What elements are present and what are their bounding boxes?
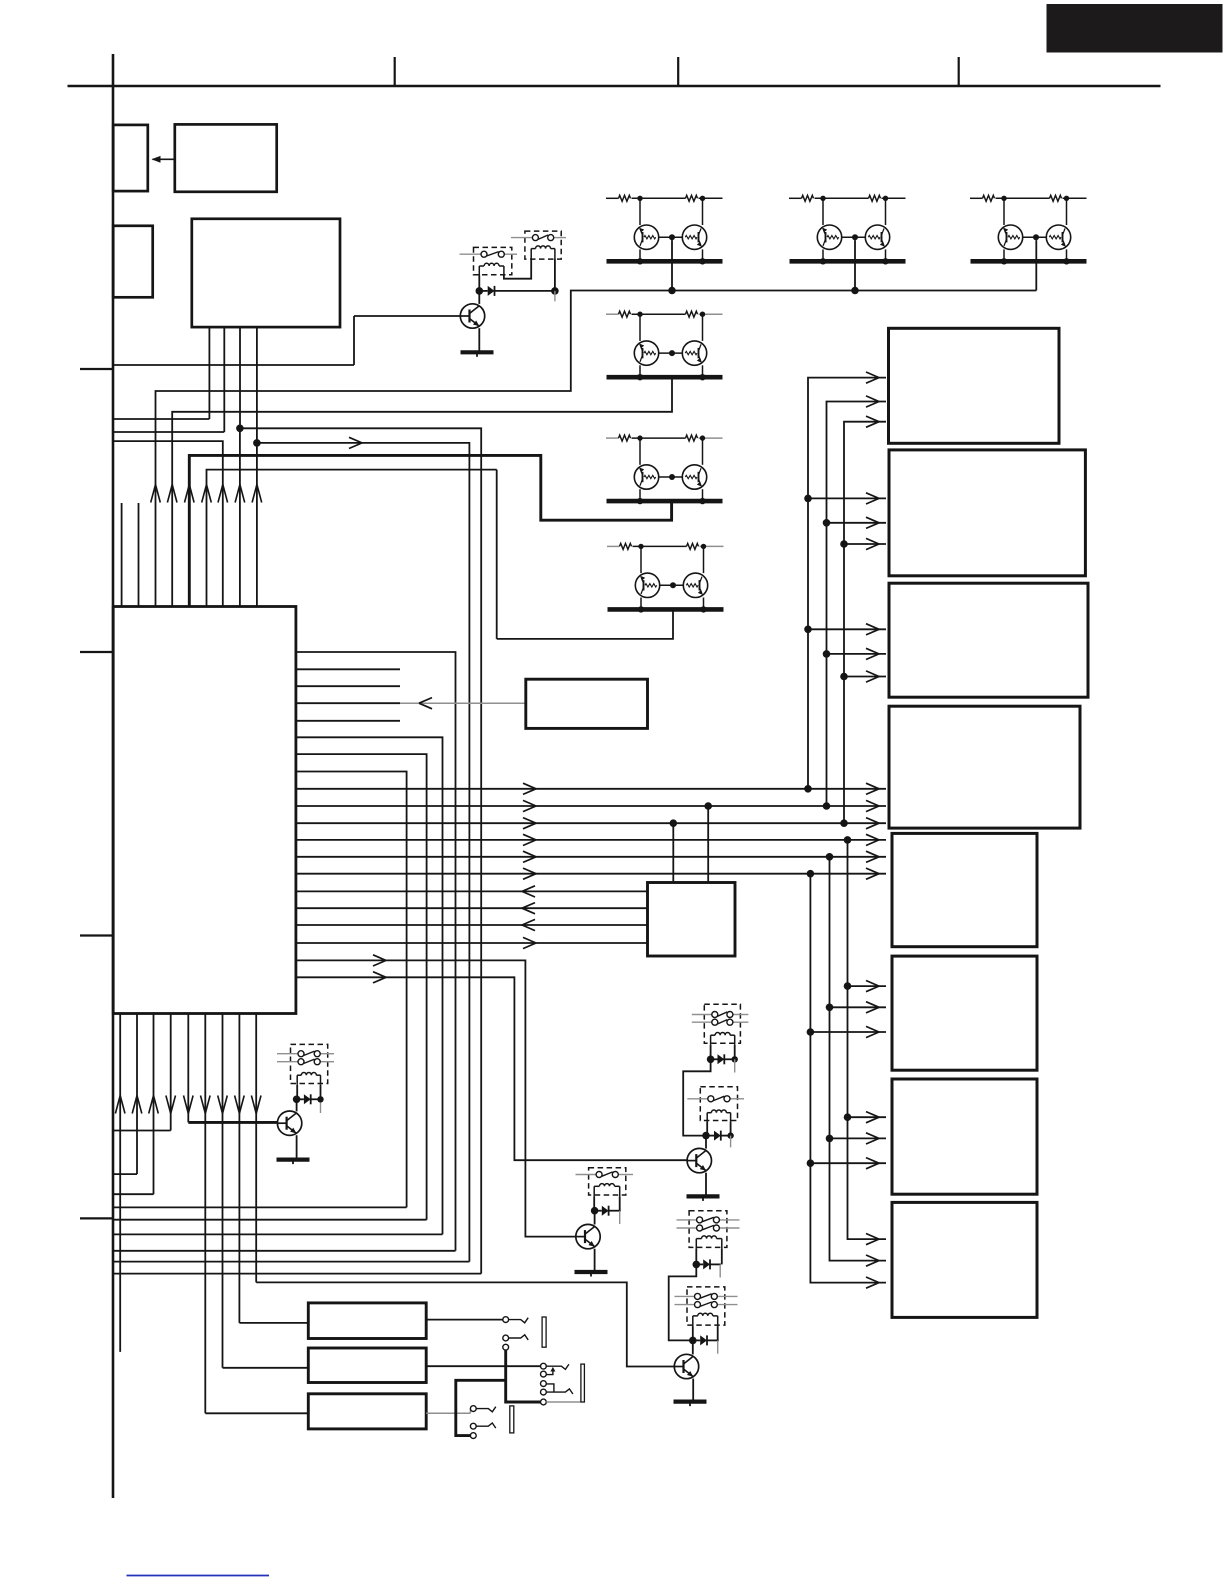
block BA xyxy=(308,1303,426,1339)
arrow into right box xyxy=(866,416,879,427)
wire D4 cathode lead xyxy=(311,1098,321,1100)
relay RY4 xyxy=(589,1168,626,1195)
wire bus C to box2 branch xyxy=(844,543,886,545)
node bus E to box7 xyxy=(826,1135,834,1143)
transistor Q3 xyxy=(576,1224,600,1248)
wire loop-back bundle line xyxy=(113,1206,407,1208)
wire IC bottom pin 2 xyxy=(136,1014,138,1175)
wire v6 to BC xyxy=(205,1412,308,1414)
page frame: left tick 1 xyxy=(80,368,113,370)
wire PE output to IC (thick) xyxy=(189,455,671,606)
wire IC top stub B xyxy=(138,503,140,607)
wire Q2 collector xyxy=(692,1340,694,1354)
wire loop-back bundle line xyxy=(113,1250,456,1252)
arrow left on feedback line xyxy=(522,903,535,914)
arrow into right box xyxy=(866,396,879,407)
arrow into right box xyxy=(866,818,879,829)
node bus D to box6 xyxy=(844,982,852,990)
wire bus F to box7 branch xyxy=(810,1162,886,1164)
arrow right on out20 xyxy=(373,972,386,983)
node bus C to box2 xyxy=(840,540,848,548)
arrow right on bus line xyxy=(523,868,536,879)
wire pin v4 to border xyxy=(113,1130,171,1132)
node bus F to box7 xyxy=(807,1159,815,1167)
node bus E to box6 xyxy=(826,1004,834,1012)
node bus A to box2 xyxy=(804,495,812,503)
page frame: left tick 2 xyxy=(80,651,113,653)
wire loop-back bundle line xyxy=(113,1219,427,1221)
arrow into IC top pin 7 xyxy=(252,485,262,503)
block B7 xyxy=(892,1079,1037,1194)
jack JC ring contact xyxy=(470,1423,476,1429)
wire bus A to box2 branch xyxy=(808,497,886,499)
node D8 anode junction xyxy=(689,1337,697,1345)
wire IC out8 xyxy=(296,772,407,1208)
transistor Q0 xyxy=(460,304,484,328)
arrow into right box xyxy=(866,1133,879,1144)
transistor pair PB xyxy=(789,197,802,199)
diode D4 xyxy=(304,1094,311,1104)
wire IC out15 to U2 xyxy=(296,890,648,892)
block T3 xyxy=(113,226,153,297)
wire IC bottom pin 1 xyxy=(119,1014,121,1352)
transistor pair PC xyxy=(970,197,983,199)
wire loop-back bundle line xyxy=(113,1233,443,1235)
wire T4 pin4 to IC xyxy=(256,443,258,607)
wire Q0 emitter xyxy=(478,328,480,352)
wire T4 pin4 down xyxy=(256,327,258,443)
node PB output junction xyxy=(851,287,859,295)
node D6 cathode junction xyxy=(727,1132,733,1138)
wire IC bottom pin 4 xyxy=(170,1014,172,1131)
wire RY4 coil left to D5 xyxy=(593,1196,595,1210)
transistor pair PF xyxy=(607,545,620,547)
wire IC bottom pin 7 xyxy=(222,1014,224,1368)
wire IC out1 xyxy=(296,652,456,1251)
wire PA output drop xyxy=(671,240,673,290)
arrow into right box xyxy=(866,1158,879,1169)
wire T4 pin3 branch right xyxy=(240,428,481,1273)
block U2 xyxy=(648,883,736,957)
arrow down on IC bottom pin 8 xyxy=(235,1096,245,1114)
wire D6 leads xyxy=(707,1135,714,1137)
wire RY4 coil right lead xyxy=(619,1196,621,1210)
wire RY1 coil left to D0 xyxy=(478,276,480,291)
wire RY5a to RY5b link xyxy=(683,1059,710,1135)
arrow down on IC bottom pin 5 xyxy=(184,1096,194,1114)
jack JB contact 1 xyxy=(541,1363,547,1369)
IC U1 (main microcontroller) xyxy=(113,607,296,1014)
bus line F lower xyxy=(810,874,886,1283)
wire RY5a coil right lead xyxy=(734,1045,736,1059)
bus line D lower xyxy=(848,840,887,1239)
block B1 xyxy=(889,328,1060,443)
wire PD output to IC xyxy=(172,375,672,606)
wire bus F to box6 branch xyxy=(810,1031,886,1033)
jack JA tip contact xyxy=(503,1317,509,1323)
arrow into IC top pin 6 xyxy=(235,485,245,503)
wire JC sleeve common (thick) xyxy=(456,1380,506,1435)
wire U2 pin1 up xyxy=(672,823,674,882)
wire D8 cathode stub xyxy=(717,1340,719,1353)
wire IC out13 xyxy=(296,856,886,858)
wire T4 pin3 to IC xyxy=(239,428,241,606)
arrow into IC top pin 3 xyxy=(185,485,195,503)
arrow into right box xyxy=(866,783,879,794)
wire bus D to box7 branch xyxy=(848,1116,887,1118)
wire D5 leads xyxy=(594,1210,602,1212)
bus line E lower xyxy=(830,857,887,1261)
wire bus C to box3 branch xyxy=(844,676,886,678)
wire D7 cathode stub xyxy=(719,1264,721,1277)
arrow into right box xyxy=(866,868,879,879)
diode D8 xyxy=(700,1335,707,1345)
wire IC out5 xyxy=(296,720,400,722)
wire RY3 coil right lead xyxy=(320,1085,322,1100)
arrow down on IC bottom pin 7 xyxy=(218,1096,228,1114)
wire IC out16 to U2 xyxy=(296,907,648,909)
transistor pair PE xyxy=(606,437,619,439)
node T4 pin3 junction xyxy=(236,425,244,433)
wire D0 cathode to RY2 coil xyxy=(495,290,555,292)
ground Q3 xyxy=(575,1270,608,1274)
wire IC out10 xyxy=(296,805,886,807)
arrow right on bus line xyxy=(523,783,536,794)
wire IC out18 to U2 xyxy=(296,942,648,944)
arrow right on bus line xyxy=(523,851,536,862)
wire IC out11 xyxy=(296,822,886,824)
arrow into right box xyxy=(866,372,879,383)
wire IC bottom pin 3 xyxy=(153,1014,155,1195)
wire v8 to BA xyxy=(239,1322,308,1324)
node bus A to box3 xyxy=(804,626,812,634)
wire RY5b coil right lead xyxy=(730,1122,732,1136)
block T2 xyxy=(175,124,277,191)
bus line C upper xyxy=(844,422,886,824)
bus line B upper xyxy=(827,402,887,807)
arrow into right box xyxy=(866,834,879,845)
wire RY5 to RY6 link xyxy=(669,1264,697,1340)
node D9 anode junction xyxy=(707,1056,715,1064)
ground Q2 xyxy=(674,1399,707,1403)
wire PB output drop xyxy=(854,240,856,290)
wire BC output xyxy=(426,1412,470,1414)
node PA output junction xyxy=(668,287,676,295)
wire RY1 coil right step xyxy=(504,260,531,279)
wire IC out2 xyxy=(296,668,400,670)
node bus F to box6 xyxy=(807,1028,815,1036)
arrow down on IC bottom pin 9 xyxy=(251,1096,261,1114)
wire IC bottom pin 5 xyxy=(187,1014,189,1123)
arrow down on IC bottom pin 6 xyxy=(201,1096,211,1114)
wire IC out9 xyxy=(296,788,886,790)
jack JB body xyxy=(581,1364,585,1402)
wire pin v3 to border xyxy=(113,1193,154,1195)
wire IC bottom pin 6 xyxy=(204,1014,206,1414)
arrow into right box xyxy=(866,493,879,504)
arrow into right box xyxy=(866,851,879,862)
bus line A upper xyxy=(808,378,886,789)
wire loop-back bundle line xyxy=(113,1261,469,1263)
wire D8 leads xyxy=(693,1339,700,1341)
relay RY5b xyxy=(700,1087,737,1121)
wire D9 leads xyxy=(711,1058,718,1060)
wire Q1 collector xyxy=(705,1136,707,1149)
arrow up on IC bottom pin 2 xyxy=(132,1096,142,1114)
wire T4 pin4 branch right xyxy=(257,443,470,1262)
arrow right on out19 xyxy=(373,955,386,966)
block BB xyxy=(308,1348,426,1383)
node bus D to box7 xyxy=(844,1113,852,1121)
node bus C source xyxy=(840,819,848,827)
relay RY3 xyxy=(291,1044,328,1083)
wire IC out3 xyxy=(296,685,400,687)
arrow on IC out4 xyxy=(419,698,432,709)
relay RY5a xyxy=(704,1004,740,1043)
wire Q2 emitter xyxy=(692,1379,694,1402)
arrow right on bus line xyxy=(523,818,536,829)
wire QE collector xyxy=(296,1099,298,1111)
ground Q1 xyxy=(687,1194,720,1198)
wire IC out19 to Q3 base xyxy=(296,960,576,1236)
arrow on pin4 branch xyxy=(349,437,362,448)
jack JB sleeve contact xyxy=(541,1399,547,1405)
transistor QE xyxy=(277,1111,301,1135)
arrow up on IC bottom pin 1 xyxy=(115,1096,125,1114)
wire T4 pin1 to border xyxy=(113,418,209,420)
wire RY5a coil left down xyxy=(710,1045,712,1059)
wire D7 leads xyxy=(696,1263,703,1265)
relay RY2 xyxy=(525,231,561,259)
wire IC bottom pin 9 xyxy=(255,1014,257,1283)
arrow from T2 to T1 xyxy=(153,158,175,160)
jack JC sleeve contact xyxy=(470,1433,476,1439)
wire IC out17 to U2 xyxy=(296,924,648,926)
page frame: left border line xyxy=(112,54,115,1498)
wire IC top stub A xyxy=(121,503,123,607)
block T4 (system control) xyxy=(192,219,340,327)
hyperlink underline xyxy=(127,1575,270,1577)
ground QE xyxy=(277,1157,310,1161)
arrow into right box xyxy=(866,800,879,811)
ground Q0 xyxy=(461,350,494,354)
wire RY2 coil right lead xyxy=(554,259,556,291)
node bus E source xyxy=(826,853,834,861)
node D4 cathode junction xyxy=(317,1096,323,1102)
wire loop-back bundle line xyxy=(113,1273,481,1275)
jack JA sleeve contact xyxy=(503,1344,509,1350)
wire PF output to IC xyxy=(497,610,673,639)
wire pair common bus to IC xyxy=(156,291,1037,607)
wire JA sleeve common (thick) xyxy=(506,1350,541,1402)
wire RY6 coil left down xyxy=(692,1326,694,1340)
arrow into right box xyxy=(866,517,879,528)
title block (blacked out) xyxy=(1047,5,1222,53)
block U3 xyxy=(526,679,648,728)
wire IC out6 xyxy=(296,737,443,1234)
node bus B to box3 xyxy=(823,650,831,658)
diode D6 xyxy=(714,1131,721,1141)
arrow into right box xyxy=(866,1026,879,1037)
block B3 xyxy=(889,583,1088,697)
wire BB output xyxy=(426,1365,540,1367)
relay RY6 xyxy=(687,1287,725,1325)
page frame: left tick 3 xyxy=(80,934,113,936)
page frame: top tick 3 xyxy=(958,57,960,86)
wire D4 anode lead xyxy=(297,1098,304,1100)
jack JB contact 3 xyxy=(541,1381,547,1387)
wire IC out14 xyxy=(296,873,886,875)
wire Q1 emitter xyxy=(705,1173,707,1197)
jack JA body xyxy=(542,1317,546,1347)
arrow into IC top pin 4 xyxy=(202,485,212,503)
transistor Q1 xyxy=(687,1148,711,1172)
wire bus B to box3 branch xyxy=(827,653,887,655)
node bus F source xyxy=(807,870,815,878)
arrow right on out18 xyxy=(523,937,536,948)
arrow into right box xyxy=(866,671,879,682)
page frame: top tick 1 xyxy=(394,57,396,86)
wire Q3 emitter xyxy=(594,1249,596,1272)
diode D9 xyxy=(718,1054,725,1064)
node Q0 collector junction xyxy=(476,287,484,295)
node U2 pin2 junction xyxy=(704,802,712,810)
wire RY5 coil left down xyxy=(695,1249,697,1265)
node D4 anode junction xyxy=(293,1096,301,1104)
arrow into right box xyxy=(866,1234,879,1245)
arrow into right box xyxy=(866,624,879,635)
wire D0 anode lead xyxy=(479,290,487,292)
relay RY1 xyxy=(474,247,512,274)
diode D5 xyxy=(602,1206,609,1216)
arrow into IC top pin 5 xyxy=(218,485,228,503)
node D0/RY2 junction xyxy=(551,287,559,295)
page frame: top rule xyxy=(68,85,1161,88)
wire U2 pin2 up xyxy=(707,806,709,883)
arrow left on feedback line xyxy=(522,886,535,897)
jack JB contact 2 bracket xyxy=(546,1369,553,1374)
node D9 cathode junction xyxy=(732,1056,738,1062)
arrow up on IC bottom pin 3 xyxy=(149,1096,159,1114)
wire border feed to IC arrow5 xyxy=(113,441,223,606)
block B6 xyxy=(892,956,1037,1070)
block B5 xyxy=(892,833,1037,946)
jack JB contact 4 xyxy=(541,1389,547,1395)
wire T4 pin2 down xyxy=(223,327,225,432)
block B8 xyxy=(892,1202,1037,1317)
arrow into IC top pin 1 xyxy=(151,485,161,503)
wire bus B to box2 branch xyxy=(827,522,887,524)
arrow into right box xyxy=(866,1277,879,1288)
jack JC tip contact xyxy=(470,1406,476,1412)
node D6 anode junction xyxy=(702,1132,710,1140)
wire IC out4 to U3 xyxy=(296,702,400,704)
arrow into right box xyxy=(866,538,879,549)
arrow into right box xyxy=(866,1002,879,1013)
wire bus E to box7 branch xyxy=(830,1137,887,1139)
wire Q0 collector xyxy=(478,291,480,304)
wire QE emitter xyxy=(296,1135,298,1159)
arrow into IC top pin 2 xyxy=(167,485,177,503)
node bus B to box2 xyxy=(823,519,831,527)
wire pin v9 to Q2 base xyxy=(256,1282,674,1366)
node T4 pin4 junction xyxy=(253,439,261,447)
wire IC out12 xyxy=(296,839,886,841)
block B4 xyxy=(889,706,1080,828)
jack JC body xyxy=(510,1406,514,1433)
arrow into right box xyxy=(866,648,879,659)
node bus C to box3 xyxy=(840,673,848,681)
wire IC bottom pin 8 xyxy=(238,1014,240,1323)
diode D0 xyxy=(488,286,495,296)
wire RY3 coil left to D4 xyxy=(296,1085,298,1100)
wire bus D to box6 branch xyxy=(848,985,887,987)
arrow into right box xyxy=(866,1255,879,1266)
arrow left on feedback line xyxy=(522,919,535,930)
transistor pair PD xyxy=(606,313,619,315)
wire RY5b coil left down xyxy=(706,1122,708,1136)
arrow into right box xyxy=(866,1112,879,1123)
node bus B source xyxy=(823,802,831,810)
node bus A source xyxy=(804,785,812,793)
wire pin v2 to border xyxy=(113,1173,137,1175)
block T1 xyxy=(113,125,148,191)
wire T4 pin3 down xyxy=(239,327,241,428)
node U2 pin1 junction xyxy=(670,819,678,827)
page frame: left tick 4 xyxy=(80,1217,113,1219)
wire QE base (thick) xyxy=(188,1121,277,1124)
wire T4 pin1 down xyxy=(208,327,210,419)
wire border to Q0 base xyxy=(113,364,354,366)
wire Q3 collector xyxy=(594,1211,596,1225)
node D7 anode junction xyxy=(693,1261,701,1269)
arrow into right box xyxy=(866,981,879,992)
wire IC out7 xyxy=(296,754,427,1220)
wire T4 pin2 to border xyxy=(113,431,224,433)
arrow down on IC bottom pin 4 xyxy=(166,1096,176,1114)
block B2 xyxy=(889,450,1085,576)
block BC xyxy=(308,1394,426,1429)
jack JA ring contact xyxy=(503,1335,509,1341)
wire bus A to box3 branch xyxy=(808,628,886,630)
wire PC output drop xyxy=(1035,240,1037,290)
wire RY6 coil right lead xyxy=(717,1326,719,1340)
node D5 anode junction xyxy=(591,1207,599,1215)
transistor pair PA xyxy=(606,197,619,199)
transistor Q2 xyxy=(674,1354,698,1378)
wire BA output xyxy=(426,1319,503,1321)
node bus D source xyxy=(844,836,852,844)
jack JB contact 2 xyxy=(541,1371,547,1377)
arrow right on bus line xyxy=(523,834,536,845)
diode D7 xyxy=(703,1259,710,1269)
wire v7 to BB xyxy=(223,1367,309,1369)
wire RY5 coil right lead xyxy=(721,1249,723,1265)
wire IC out20 to Q1 base xyxy=(296,977,687,1160)
wire bus E to box6 branch xyxy=(830,1006,887,1008)
jack JB contact 3 bracket xyxy=(546,1384,554,1392)
arrow right on bus line xyxy=(523,800,536,811)
page frame: top tick 2 xyxy=(677,57,679,86)
relay RY5 xyxy=(689,1211,727,1248)
